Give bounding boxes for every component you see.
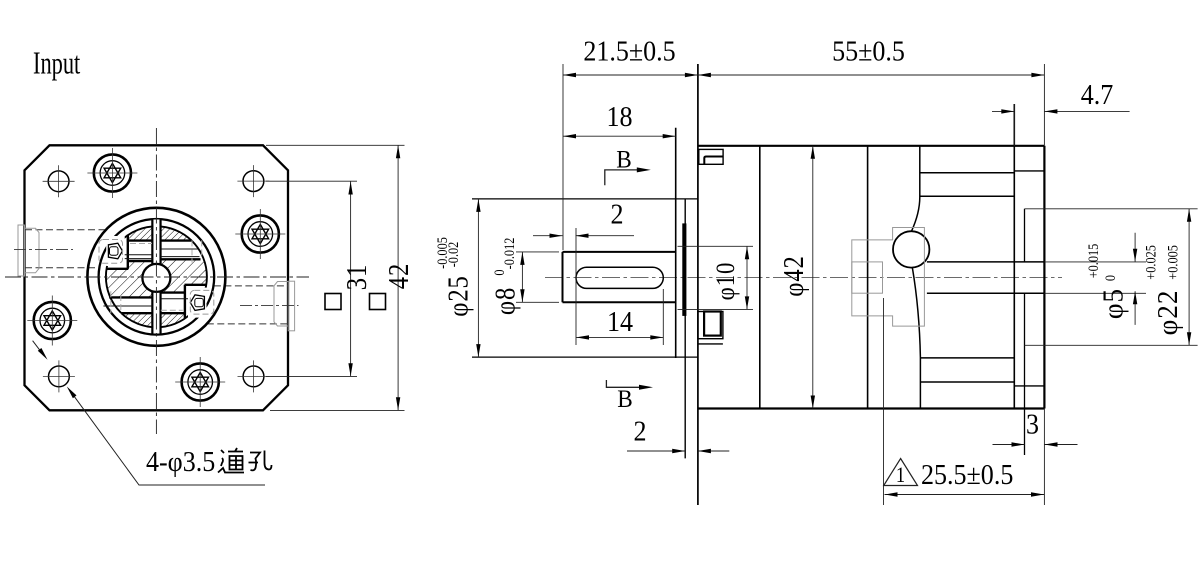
dimension 25.5±0.5 <box>885 494 1045 496</box>
corner hole bottom-right <box>238 360 270 392</box>
motor shaft hole lines <box>927 262 1045 293</box>
rear cover face <box>1043 146 1045 409</box>
central bearing inner circle <box>99 219 215 335</box>
keyway end extension line <box>662 289 664 345</box>
left block bottom edge <box>128 260 153 262</box>
slot white masks <box>153 220 159 264</box>
phi22 recess bottom <box>1024 209 1026 455</box>
socket screw left <box>27 296 77 346</box>
dimension phi25 with tolerance <box>477 199 479 357</box>
svg-text:2: 2 <box>633 416 646 447</box>
hidden thread dashes (gray) <box>130 243 152 245</box>
hatched gear section upper-left cap <box>128 226 153 240</box>
svg-text:φ8: φ8 <box>490 287 521 315</box>
right block top edge <box>160 291 184 293</box>
hex socket screw left (section) <box>106 236 125 266</box>
keyway slot <box>576 267 663 288</box>
lower-right cap chord <box>160 312 184 314</box>
svg-text:4-φ3.5: 4-φ3.5 <box>146 446 215 477</box>
svg-text:0: 0 <box>491 269 507 275</box>
dimension 42: extension lines <box>266 145 405 410</box>
svg-text:25.5±0.5: 25.5±0.5 <box>921 459 1013 490</box>
carrier disc circle <box>106 226 207 327</box>
svg-text:Input: Input <box>33 45 81 81</box>
phi8 extension lines <box>516 252 559 302</box>
hatched gear section lower-right cap <box>160 313 183 327</box>
phi22 recess edges + extension lines <box>1025 209 1198 345</box>
hidden lines left connector <box>25 230 106 268</box>
bottom notch on front face <box>698 312 723 344</box>
lower-left band thick edge <box>109 296 152 298</box>
svg-text:31: 31 <box>342 264 373 290</box>
rear cover extension line <box>1013 104 1015 146</box>
svg-text:18: 18 <box>606 101 632 132</box>
housing bottom edge <box>698 407 1045 409</box>
dimension 2 (boss thickness) <box>627 450 729 452</box>
main axis centerline <box>545 276 1062 278</box>
phi25 boss face <box>675 128 677 358</box>
svg-text:φ42: φ42 <box>779 255 810 296</box>
svg-text:4.7: 4.7 <box>1081 79 1114 110</box>
left carrier step <box>106 268 128 270</box>
corner hole top-right <box>237 165 269 197</box>
hex socket screw right (section) <box>188 288 207 318</box>
hatched carrier mid-right region <box>161 259 207 292</box>
phi25 boss top edge + extension <box>472 198 698 200</box>
dimension phi10 <box>746 246 748 309</box>
svg-text:φ25: φ25 <box>443 275 474 316</box>
keyway start extension line <box>575 228 577 345</box>
mid/rear divider <box>867 146 869 408</box>
socket screw right <box>235 209 285 259</box>
square flange plate outline <box>25 145 289 410</box>
svg-text:0: 0 <box>1102 275 1118 281</box>
svg-text:21.5±0.5: 21.5±0.5 <box>583 36 675 67</box>
lower-right block right edge <box>184 285 186 319</box>
svg-text:+0.015: +0.015 <box>1085 244 1101 279</box>
upper-right cap chord <box>161 239 192 241</box>
left tab centerline <box>14 248 73 250</box>
break-out wavy line <box>911 146 919 232</box>
svg-text:φ10: φ10 <box>712 262 741 301</box>
hatched carrier mid-left region <box>105 261 152 297</box>
top terminal notch on front face <box>699 149 723 164</box>
dimension 21.5±0.5 <box>563 74 698 76</box>
svg-text:42: 42 <box>384 263 415 289</box>
svg-text:+0.025: +0.025 <box>1142 245 1158 280</box>
svg-text:-0.012: -0.012 <box>501 238 517 270</box>
svg-text:φ22: φ22 <box>1152 290 1183 336</box>
dimension 18 <box>563 135 676 137</box>
socket screw bottom <box>175 357 225 407</box>
svg-text:2: 2 <box>610 199 623 230</box>
lower-left cap chord <box>121 312 152 314</box>
upper-left block left edge <box>127 235 129 269</box>
dimension 31: dim line with arrows <box>350 182 352 377</box>
corner hole top-left <box>43 165 75 197</box>
shaft end extension line <box>562 64 564 250</box>
center slot walls <box>152 219 160 334</box>
svg-text:3: 3 <box>1026 409 1039 440</box>
dimension phi22 with tolerance <box>1188 209 1190 345</box>
phi10 step extension lines <box>678 246 754 309</box>
dimension 55±0.5 <box>698 74 1045 76</box>
thin gear face lines <box>103 249 199 306</box>
central bearing outer circle <box>87 208 225 346</box>
dimension 3 (recess depth) <box>993 444 1078 446</box>
right side tab (gray) <box>274 281 295 331</box>
rear housing face <box>1013 104 1015 408</box>
hatched gear section lower-left cap <box>121 313 152 327</box>
gearbox housing outline <box>698 146 1045 409</box>
seal washer (solid black) <box>682 223 686 316</box>
svg-text:55±0.5: 55±0.5 <box>832 36 905 67</box>
dimension phi5 with tolerance <box>1134 233 1136 325</box>
rear face extension line <box>1043 64 1045 505</box>
leader arrow upper (points to phi3.5 hole) <box>33 341 45 356</box>
left side tab (gray) <box>18 225 39 276</box>
thick section edge lines lower half <box>109 285 206 319</box>
dimension 31: extension lines <box>266 181 357 376</box>
socket screw top <box>87 148 137 198</box>
hanzi KONG (hole) <box>249 451 272 471</box>
right carrier step <box>185 284 207 286</box>
phi5 extension lines <box>1044 262 1146 293</box>
hidden outline fragments upper-right / lower-left (gray dashed) <box>192 240 202 262</box>
leader arrow lower with label line <box>72 393 266 485</box>
dimension phi8 with tolerance <box>521 252 523 302</box>
dimension 14 <box>576 336 663 338</box>
phi25 boss bottom edge + extension <box>472 356 698 358</box>
25.5 extension line <box>883 298 885 505</box>
housing top edge <box>698 145 1045 147</box>
rear cover step lines <box>1014 171 1044 386</box>
svg-text:1: 1 <box>896 464 905 488</box>
hidden screw outline right (gray dashed) <box>190 290 214 314</box>
section marker B bottom <box>606 380 639 387</box>
svg-text:B: B <box>617 385 632 413</box>
svg-text:B: B <box>616 146 631 174</box>
ring gear bore lines <box>920 173 1015 382</box>
svg-text:φ5: φ5 <box>1097 288 1128 319</box>
horizontal centerline of front view <box>5 276 309 278</box>
svg-text:14: 14 <box>607 306 633 337</box>
boss rear line / extension <box>684 200 686 459</box>
datum triangle flag 1 <box>884 459 918 486</box>
corner hole bottom-left <box>43 360 75 392</box>
hanzi TONG (through) <box>218 448 244 473</box>
right band thick edge <box>161 258 201 260</box>
svg-text:-0.02: -0.02 <box>445 242 461 268</box>
thick section edge lines upper half <box>106 235 200 269</box>
right tab centerline <box>240 305 299 307</box>
motor hidden outline (gray) <box>852 228 925 327</box>
hidden screw outline left (gray dashed) <box>99 240 123 264</box>
svg-text:+0.005: +0.005 <box>1164 245 1180 280</box>
vertical centerline of front view <box>155 128 157 434</box>
upper-left cap chord <box>127 239 153 241</box>
front plate/mid divider <box>759 146 761 408</box>
hidden lines right connector <box>207 286 288 324</box>
dimension phi42 <box>812 146 814 409</box>
gearbox front face / extension <box>697 64 699 505</box>
planet pin circle <box>893 231 929 267</box>
dimension 2 (keyway offset) <box>533 235 634 237</box>
dimension 4.7 <box>992 110 1130 112</box>
output shaft phi8 <box>563 252 677 302</box>
section marker B top <box>605 170 637 185</box>
dimension 42: dim line with arrows <box>397 145 399 410</box>
center bore circle <box>142 264 170 292</box>
hatched gear section upper-right cap <box>161 226 192 240</box>
